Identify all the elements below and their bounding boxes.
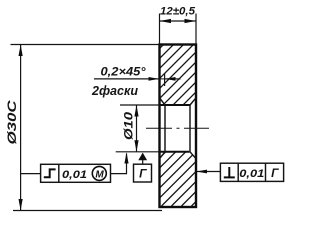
runout (step) symbol (44, 169, 56, 177)
arrowhead bottom of Ø30C (19, 199, 23, 211)
chamfer dimension line to left face (148, 78, 160, 80)
svg-text:Г: Г (139, 167, 147, 181)
svg-text:M: M (95, 170, 104, 181)
leader from frame right side up to Ø10 extension (111, 154, 127, 174)
arrowhead pointing right at left face (149, 77, 160, 81)
dimension Ø30C: bottom extension line (13, 210, 162, 212)
arrowhead top of Ø10 (134, 105, 138, 117)
chamfer diagonal bottom-right (190, 152, 196, 159)
horizontal centre line of bore (dash-dot) (146, 127, 209, 129)
datum stem (142, 160, 144, 164)
dimension Ø30C: top extension line (11, 44, 160, 46)
arrowhead pointing left at right face (196, 170, 207, 174)
arrowhead pointing left at chamfer tick with tail (165, 78, 181, 80)
svg-text:2фаски: 2фаски (91, 84, 138, 98)
dimension 12±0,5: dimension line (160, 20, 197, 22)
MMC modifier circle M (92, 166, 106, 180)
left chamfer edge circle (seen through bore) (164, 105, 166, 152)
dimension Ø10: dimension line (136, 105, 138, 152)
bore top line (Ø10 upper generatrix) with left extension (120, 104, 160, 106)
chamfer diagonal top-left (160, 98, 166, 105)
leader from frame to Ø30C dimension line (21, 173, 41, 175)
svg-text:0,01: 0,01 (239, 168, 264, 180)
perpendicularity frame [⊥ | 0,01 | Г] (220, 163, 283, 181)
svg-text:12±0,5: 12±0,5 (160, 6, 196, 18)
perpendicularity symbol (228, 167, 230, 177)
datum Г triangle (138, 153, 147, 161)
svg-text:Ø10: Ø10 (124, 111, 136, 140)
leader from right frame to right face (197, 171, 220, 173)
bore bottom line (Ø10 lower generatrix) with left extension (116, 151, 160, 153)
arrowhead right of 12±0,5 (185, 19, 197, 23)
chamfer note 0,2×45° over 2 фаски: fraction bar (94, 78, 148, 80)
svg-text:Ø30С: Ø30С (5, 100, 19, 144)
arrowhead top of Ø30C (19, 45, 23, 57)
chamfer extension tick inside hatch (164, 74, 166, 87)
dimension Ø30C: dimension line (20, 45, 22, 211)
svg-text:0,2×45°: 0,2×45° (101, 64, 146, 78)
hatching of bottom section block (160, 152, 197, 206)
datum box Г (134, 164, 152, 182)
chamfer diagonal bottom-left (160, 152, 166, 159)
chamfer dimension line inner segment (160, 78, 165, 80)
svg-text:0,01: 0,01 (62, 169, 87, 181)
right chamfer edge circle (seen through bore) (189, 105, 191, 152)
arrowhead up on leader (124, 152, 128, 163)
chamfer diagonal top-right (190, 98, 196, 105)
svg-text:Г: Г (271, 166, 279, 180)
hatching of top section block (160, 45, 197, 108)
runout tolerance frame [step | 0,01 Ⓜ] (41, 164, 111, 182)
arrowhead bottom of Ø10 (134, 140, 138, 152)
arrowhead left of 12±0,5 (160, 19, 172, 23)
dimension 12±0,5: extension lines (159, 14, 161, 45)
part outer outline (section faces) (160, 45, 197, 208)
